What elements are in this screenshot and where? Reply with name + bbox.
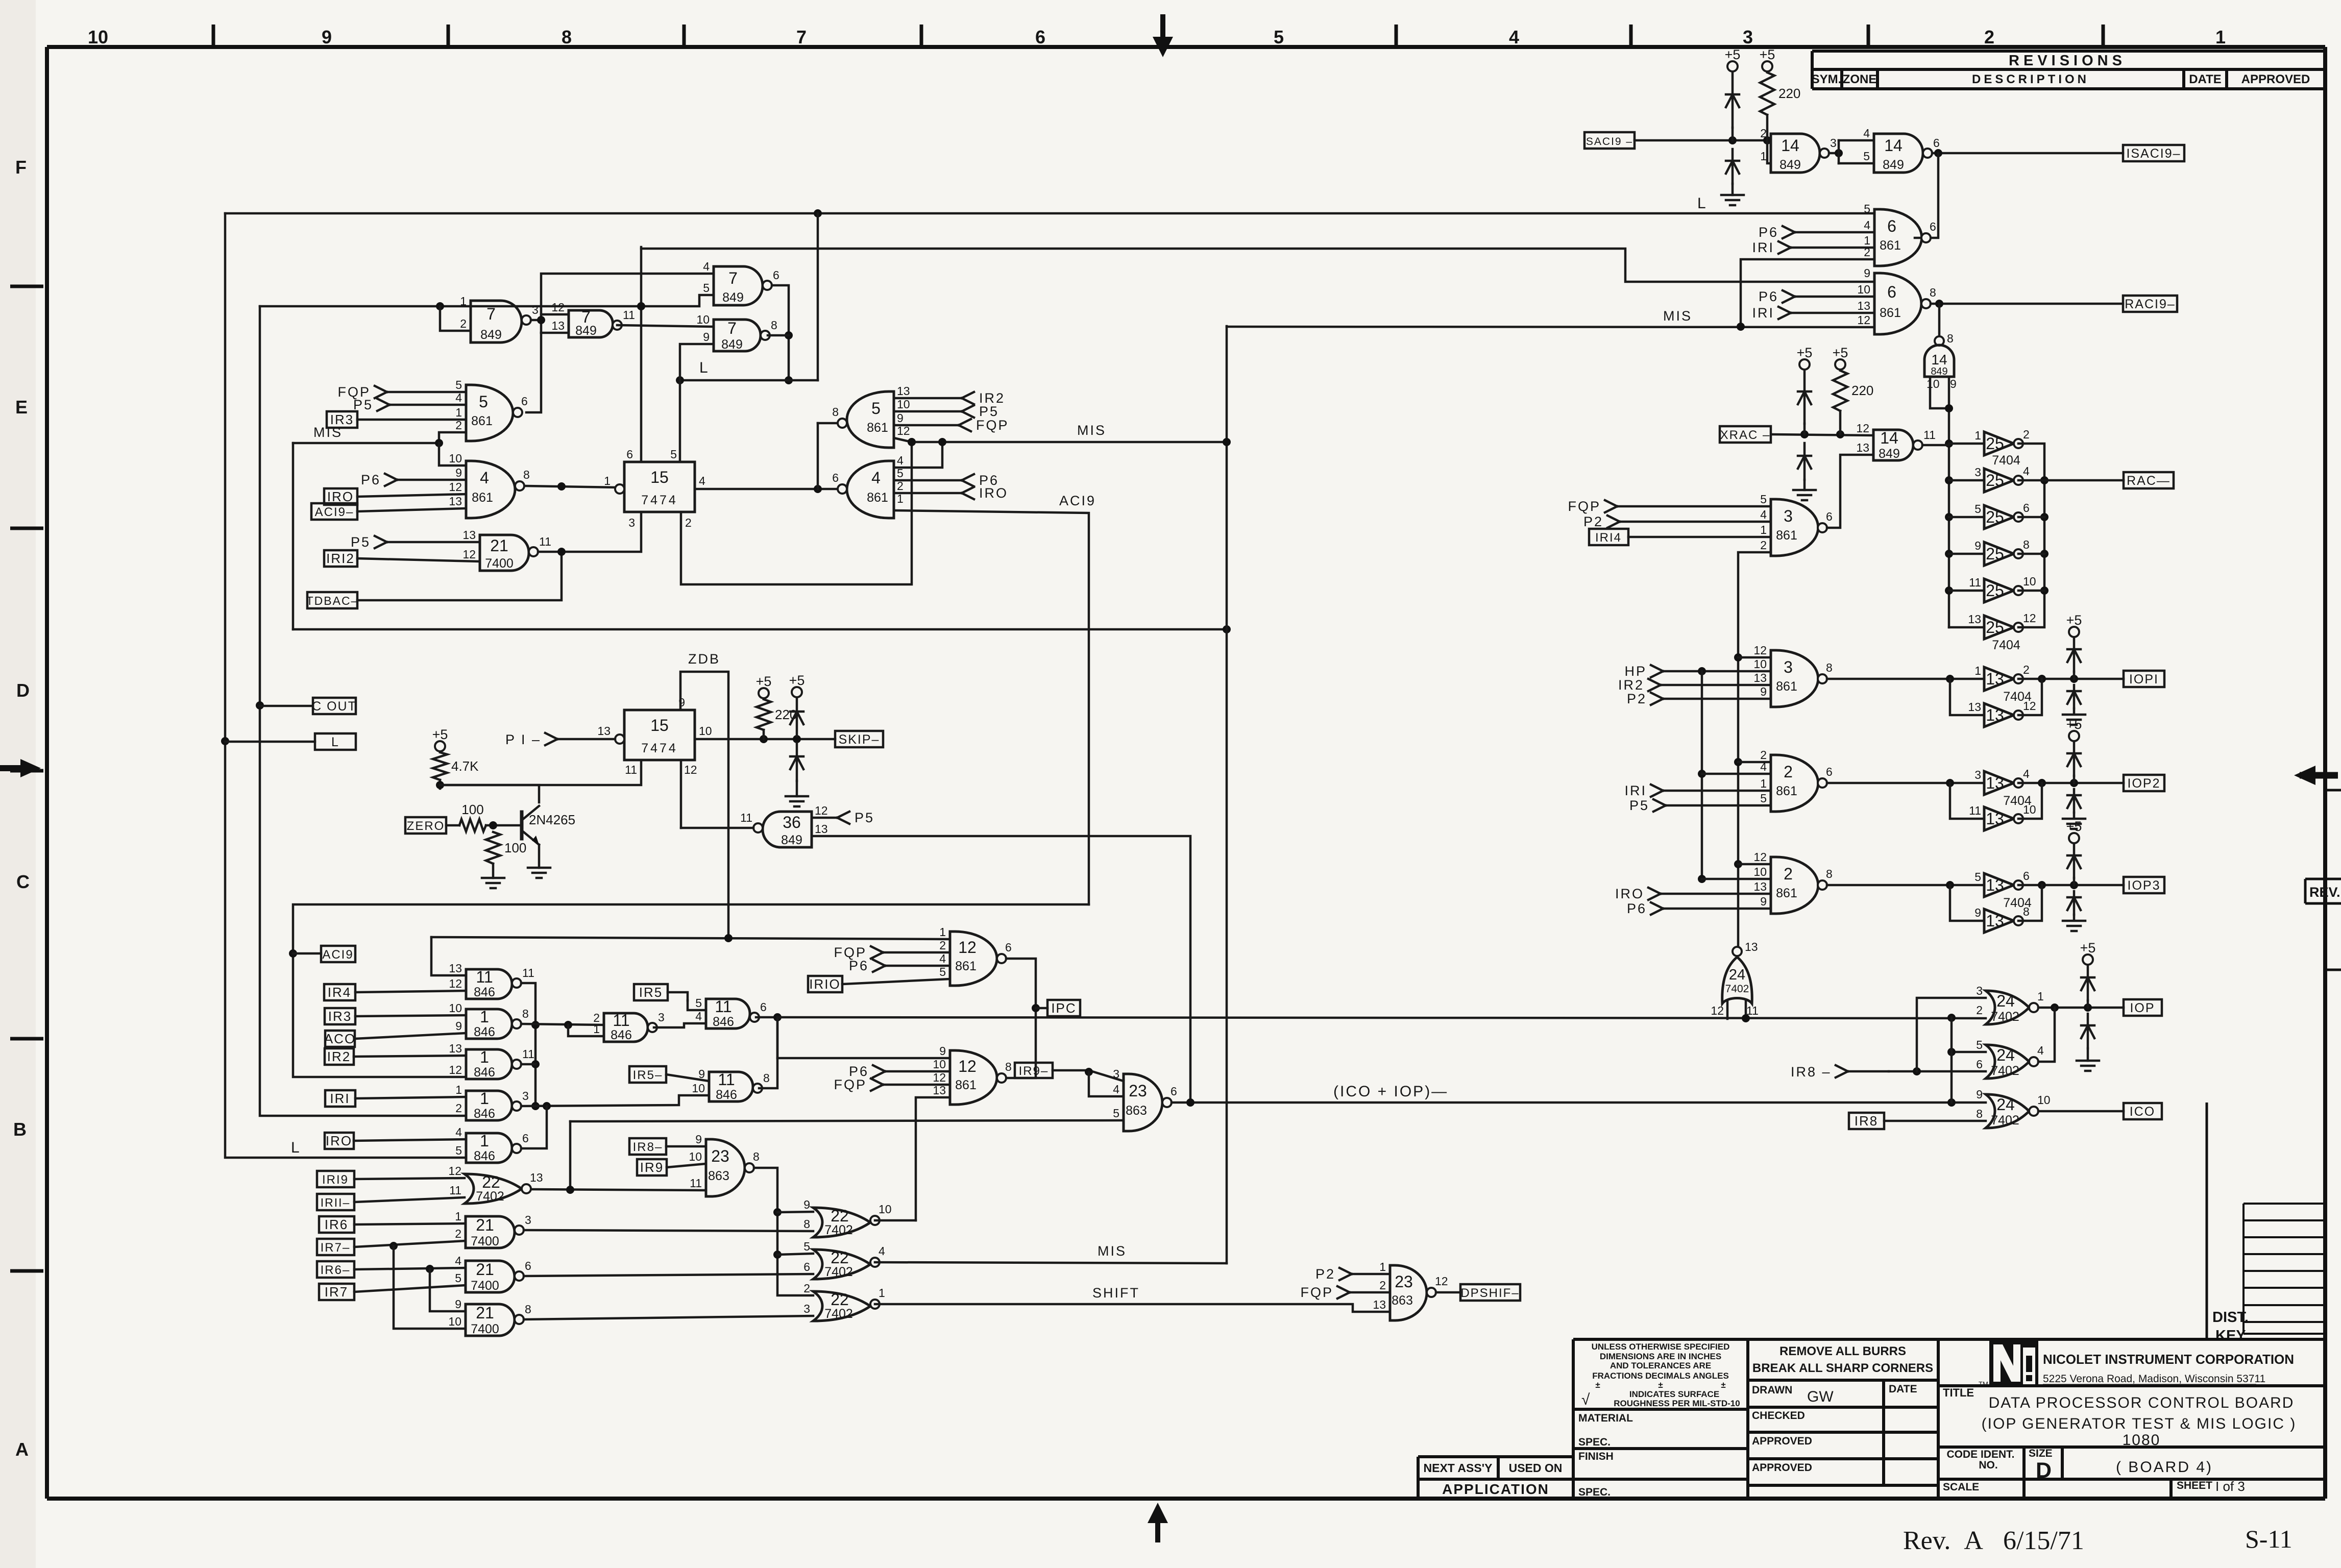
svg-text:846: 846 xyxy=(474,1065,495,1080)
bottom border xyxy=(47,1497,2325,1501)
svg-text:+5: +5 xyxy=(2066,612,2082,628)
wire IPC feed long east xyxy=(777,1017,1986,1018)
svg-text:IR7–: IR7– xyxy=(321,1241,351,1255)
wire left vertical rail x441 (L net) xyxy=(225,213,466,1158)
node IR3 box (lower) xyxy=(325,1008,355,1024)
inverter 13 (7404) pins 9->8 xyxy=(1974,905,2030,933)
svg-text:REMOVE ALL BURRS: REMOVE ALL BURRS xyxy=(1779,1344,1906,1358)
flip-flop 15 (7474) upper xyxy=(624,462,695,512)
svg-text:Rev. A 6/15/71: Rev. A 6/15/71 xyxy=(1903,1526,2084,1555)
svg-text:5: 5 xyxy=(455,1271,461,1285)
wire P1 to 7474b xyxy=(557,738,615,741)
node TDBAC- box xyxy=(306,592,359,608)
node DPSHIF- box xyxy=(1460,1284,1520,1301)
svg-text:1: 1 xyxy=(480,1008,489,1026)
wire 7474b pin12 down xyxy=(680,760,682,828)
svg-text:P5: P5 xyxy=(351,534,371,550)
wire saci9 pin1 loop xyxy=(1767,140,1771,163)
wire TDBAC- up to out8 net xyxy=(357,552,562,600)
wire P6 to 12b pin10 xyxy=(885,1070,950,1073)
wire P5 to 2a pin5 xyxy=(1666,804,1771,807)
svg-text:L: L xyxy=(1697,195,1708,212)
svg-text:IOP3: IOP3 xyxy=(2128,878,2161,893)
svg-text:8: 8 xyxy=(803,1217,810,1231)
svg-text:13: 13 xyxy=(1373,1298,1386,1311)
wire xrac 220 stub xyxy=(1839,411,1842,434)
svg-text:11: 11 xyxy=(539,535,551,548)
wire left vertical rail x509 xyxy=(260,306,466,1116)
svg-text:IR5–: IR5– xyxy=(633,1068,663,1082)
svg-text:861: 861 xyxy=(867,491,888,505)
svg-text:IRIO: IRIO xyxy=(809,976,840,992)
svg-text:+5: +5 xyxy=(789,673,805,688)
svg-text:√: √ xyxy=(1581,1391,1590,1408)
svg-text:7402: 7402 xyxy=(1725,983,1749,995)
svg-text:NICOLET INSTRUMENT CORPORATION: NICOLET INSTRUMENT CORPORATION xyxy=(2043,1352,2294,1367)
svg-text:12: 12 xyxy=(958,938,977,957)
svg-text:IR3: IR3 xyxy=(328,1009,352,1024)
wire IR3 to 1a xyxy=(355,1015,466,1016)
svg-text:10: 10 xyxy=(1857,283,1870,296)
inverter 25 (7404) pins 3->4 xyxy=(1974,464,2030,492)
svg-text:2: 2 xyxy=(2023,428,2030,441)
svg-text:6: 6 xyxy=(1170,1085,1177,1098)
svg-text:5: 5 xyxy=(695,996,702,1010)
wire 22b pin9 stub xyxy=(777,1212,813,1212)
wire IR9 to 23b pin10 xyxy=(667,1164,706,1167)
node ACI9- box xyxy=(311,503,357,520)
svg-text:13: 13 xyxy=(933,1084,946,1097)
svg-text:IR2: IR2 xyxy=(327,1049,351,1064)
svg-text:10: 10 xyxy=(2037,1093,2051,1107)
svg-text:REVISIONS: REVISIONS xyxy=(2009,53,2126,69)
wire iop3 clamp stub xyxy=(2073,878,2076,885)
and-gate 2 (861) pins 12,10,13,9 -> 8 xyxy=(1753,850,1832,914)
wire HP to 3b pin10 xyxy=(1663,670,1771,673)
svg-text:5: 5 xyxy=(479,393,488,411)
svg-text:APPLICATION: APPLICATION xyxy=(1442,1481,1549,1497)
svg-text:12: 12 xyxy=(1857,313,1870,327)
left border xyxy=(45,47,49,1499)
svg-text:12: 12 xyxy=(1753,644,1767,657)
junction 4.7K to pin11 wire xyxy=(436,781,444,789)
node P5 input (gate21a) xyxy=(351,534,387,550)
wire 3a out6 to 14d pin13 xyxy=(1827,455,1873,528)
wire 2a pin2 stub xyxy=(1738,761,1771,764)
svg-text:P6: P6 xyxy=(1759,289,1778,304)
node P6 input (6a) xyxy=(1759,225,1795,240)
bottom up-arrow marker xyxy=(1148,1503,1168,1542)
svg-text:IOP: IOP xyxy=(2130,1001,2155,1015)
node IR14 box xyxy=(1589,529,1628,545)
svg-text:6: 6 xyxy=(2023,869,2030,883)
svg-text:13: 13 xyxy=(815,822,828,836)
ground (iop2 clamp) xyxy=(2063,819,2085,829)
svg-text:UNLESS OTHERWISE SPECIFIED: UNLESS OTHERWISE SPECIFIED xyxy=(1592,1342,1730,1352)
wire ICO+IOP rail x3823 xyxy=(1950,1017,1953,1102)
wire 6a pin2 from MIS xyxy=(1741,259,1874,327)
svg-text:9: 9 xyxy=(698,1067,705,1081)
svg-text:6: 6 xyxy=(626,448,633,461)
node P6 input (12a) xyxy=(849,958,885,973)
wire IRO to gate4 xyxy=(357,494,466,497)
power +5 (xrac diode) xyxy=(1797,345,1813,370)
top down-arrow marker xyxy=(1153,14,1173,57)
wire 36 out11 to 7474b pin12 xyxy=(681,827,753,829)
svg-text:5: 5 xyxy=(1863,150,1870,163)
svg-text:6: 6 xyxy=(1826,765,1833,778)
top zone numbers xyxy=(88,27,2226,47)
svg-text:5: 5 xyxy=(455,378,462,391)
svg-text:NO.: NO. xyxy=(1979,1459,1997,1471)
wire 36 pin12 xyxy=(812,817,837,819)
svg-text:FQP: FQP xyxy=(834,1077,867,1092)
svg-text:13: 13 xyxy=(1986,912,2004,930)
svg-text:849: 849 xyxy=(781,833,802,847)
svg-text:25: 25 xyxy=(1986,545,2004,563)
wire 21a out to 7474 pin3 xyxy=(538,512,641,552)
wire iop1 clamp gnd stub xyxy=(2073,708,2076,713)
wire 13f out up xyxy=(2018,885,2042,921)
svg-text:2: 2 xyxy=(460,317,467,330)
svg-text:IR6–: IR6– xyxy=(321,1263,351,1277)
wire SHIFT east (22d out1) xyxy=(875,1304,1390,1312)
wire 6a out up to ISACI9 xyxy=(1915,153,1938,238)
svg-text:11: 11 xyxy=(522,966,534,979)
svg-text:P2: P2 xyxy=(1583,514,1603,529)
wire zdb rail to 12861 pin1 xyxy=(431,937,950,939)
svg-text:ZERO: ZERO xyxy=(407,819,445,833)
node IR7- box xyxy=(317,1239,354,1255)
wire emitter to ground xyxy=(538,845,541,868)
node ZERO box xyxy=(405,817,446,834)
svg-text:S-11: S-11 xyxy=(2245,1525,2293,1553)
wire 11c out6 east xyxy=(756,1016,777,1019)
wire IR8 arrow line xyxy=(1889,1070,1986,1073)
svg-text:863: 863 xyxy=(708,1169,729,1183)
svg-text:1: 1 xyxy=(2037,990,2044,1003)
svg-text:ACI9: ACI9 xyxy=(1059,493,1096,508)
svg-text:4: 4 xyxy=(1760,508,1767,521)
left edge pointer arrow xyxy=(0,759,41,777)
svg-text:100: 100 xyxy=(461,802,483,817)
svg-text:21: 21 xyxy=(476,1216,494,1234)
wire 7c out6 down xyxy=(772,285,789,380)
wire second bus (pin9 feed) xyxy=(641,249,1874,282)
svg-text:11: 11 xyxy=(740,811,752,824)
node P5 output arrow xyxy=(962,404,999,419)
wire 13f loop xyxy=(1950,885,1984,921)
svg-text:IR2: IR2 xyxy=(1618,677,1644,693)
wire 13b loop xyxy=(1950,679,1984,715)
svg-text:8: 8 xyxy=(753,1150,760,1163)
svg-text:L: L xyxy=(291,1139,301,1156)
wire IR2 to 3b pin13 xyxy=(1661,684,1771,687)
resistor 220 (skip) xyxy=(757,699,797,730)
svg-text:7: 7 xyxy=(486,305,496,323)
svg-text:9: 9 xyxy=(1976,1088,1983,1101)
svg-text:861: 861 xyxy=(867,421,888,435)
svg-text:13: 13 xyxy=(1986,670,2004,688)
svg-text:NEXT ASS'Y: NEXT ASS'Y xyxy=(1424,1461,1493,1475)
svg-text:IOP2: IOP2 xyxy=(2128,776,2161,791)
resistor 100 (pulldown) xyxy=(486,832,526,864)
left zone letters xyxy=(13,157,30,1460)
svg-text:13: 13 xyxy=(1986,706,2004,724)
ground (saci9 clamp) xyxy=(1721,195,1744,205)
svg-text:100: 100 xyxy=(504,840,526,855)
nor-gate 24 (7402) vertical pins 12,11 -> 13 xyxy=(1711,940,1758,1017)
nand-gate 1 (846) pins 13,12 -> 11 xyxy=(449,1042,534,1080)
wire MIS main vertical x2403 xyxy=(1226,326,1228,1263)
wire ZDB loop xyxy=(680,672,728,938)
svg-text:12: 12 xyxy=(958,1057,977,1075)
junction MIS bus / MIS vertical xyxy=(1223,625,1231,633)
node IRI input (6a) xyxy=(1752,240,1791,255)
wire 25 inverter input row 1 xyxy=(1949,443,1984,445)
node P2 input (3b) xyxy=(1627,691,1663,706)
svg-text:861: 861 xyxy=(1776,886,1797,900)
wire 2b out8 to inverters xyxy=(1827,884,1984,887)
svg-text:IRO: IRO xyxy=(327,489,354,504)
nor-gate 22 (7402) pins 12,11 -> 13 xyxy=(448,1164,543,1204)
svg-text:8: 8 xyxy=(771,318,777,332)
svg-text:8: 8 xyxy=(522,1007,529,1020)
svg-text:5: 5 xyxy=(1760,493,1767,506)
wire IR14 to 3a pin1 xyxy=(1628,536,1771,538)
wire 220 skip stub xyxy=(763,730,765,739)
wire ACI9- to gate4 xyxy=(357,508,466,511)
svg-text:XRAC –: XRAC – xyxy=(1720,428,1771,442)
svg-text:IRI: IRI xyxy=(1752,240,1774,255)
svg-text:TM: TM xyxy=(1979,1380,1988,1388)
svg-text:25: 25 xyxy=(1986,471,2004,489)
wire 13d loop xyxy=(1950,783,1984,819)
svg-text:25: 25 xyxy=(1986,581,2004,600)
svg-text:21: 21 xyxy=(490,536,508,555)
svg-text:1: 1 xyxy=(879,1286,885,1300)
top ruler ticks xyxy=(213,24,2103,47)
svg-text:12: 12 xyxy=(1753,850,1767,864)
wire FQP to 23c pin2 xyxy=(1350,1291,1390,1294)
svg-text:13: 13 xyxy=(462,528,476,542)
svg-text:13: 13 xyxy=(1968,612,1981,626)
diode clamp upper (iop1) xyxy=(2067,638,2081,672)
svg-text:3: 3 xyxy=(1784,658,1793,676)
svg-text:4: 4 xyxy=(1113,1083,1119,1096)
svg-text:12: 12 xyxy=(462,548,476,561)
svg-text:7402: 7402 xyxy=(476,1189,504,1204)
wire 14c pin10 loop xyxy=(1930,377,1949,408)
wire 4m pin4 up to MIS xyxy=(894,442,942,468)
wire 2b pin10 stub xyxy=(1702,878,1771,880)
svg-text:12: 12 xyxy=(449,480,462,494)
node IOP2 box xyxy=(2124,775,2164,791)
svg-text:2: 2 xyxy=(455,1101,462,1115)
wire gate4 out8 to 7474 pin1 xyxy=(526,486,618,487)
wire 13b out up xyxy=(2018,679,2042,715)
node IR5 box xyxy=(634,984,668,1000)
svg-text:TITLE: TITLE xyxy=(1943,1386,1974,1399)
svg-text:6: 6 xyxy=(522,1132,529,1145)
svg-text:GW: GW xyxy=(1807,1388,1834,1405)
wire out8 row east xyxy=(521,1024,604,1025)
wire IR7- branch to 21d pin10 xyxy=(394,1246,466,1329)
svg-text:IRO: IRO xyxy=(979,485,1008,501)
svg-text:12: 12 xyxy=(2023,699,2036,713)
svg-text:7402: 7402 xyxy=(1991,1113,2019,1128)
wire IR8- to 23b pin9 xyxy=(666,1145,706,1148)
svg-text:(IOP GENERATOR TEST & MIS L: (IOP GENERATOR TEST & MIS LOGIC ) xyxy=(1982,1415,2297,1432)
wire 22c pin5 stub xyxy=(777,1254,813,1255)
svg-text:IRI: IRI xyxy=(330,1091,350,1106)
svg-text:5: 5 xyxy=(703,281,710,295)
svg-text:13: 13 xyxy=(1986,810,2004,828)
wire IR8 box to 24d pin8 xyxy=(1884,1120,1986,1122)
node ISACI9- box xyxy=(2123,145,2184,161)
junction 11c/11d outputs xyxy=(773,1013,782,1021)
svg-text:4: 4 xyxy=(1760,760,1767,773)
wire L box to rail xyxy=(225,741,315,743)
wire 25 output row stub y1013 xyxy=(2018,516,2044,519)
wire P5 to 21a pin13 xyxy=(387,541,480,544)
nand-gate 7 (849) pins 12,13 -> 11 xyxy=(551,301,635,338)
svg-text:SPEC.: SPEC. xyxy=(1578,1486,1611,1498)
svg-text:3: 3 xyxy=(628,516,635,529)
svg-text:P6: P6 xyxy=(1759,225,1778,240)
node IRO box (lower) xyxy=(325,1133,354,1149)
svg-text:9: 9 xyxy=(455,1297,461,1311)
svg-text:1: 1 xyxy=(1760,777,1767,790)
svg-text:14: 14 xyxy=(1880,429,1898,447)
wire 25 inverter input row 11 xyxy=(1949,590,1984,592)
svg-text:5: 5 xyxy=(871,399,881,418)
wire iop2 clamp gnd stub xyxy=(2073,813,2076,817)
svg-text:10: 10 xyxy=(699,724,712,738)
svg-text:3: 3 xyxy=(803,1302,810,1315)
svg-text:1: 1 xyxy=(1379,1260,1386,1273)
svg-text:10: 10 xyxy=(2023,575,2036,588)
power +5 (xrac 220) xyxy=(1833,345,1848,370)
wire 7474b pin11 down west xyxy=(440,760,641,785)
svg-text:(ICO + IOP)—: (ICO + IOP)— xyxy=(1333,1083,1448,1100)
svg-text:P5: P5 xyxy=(855,810,874,825)
wire 11a pin13 up xyxy=(431,937,466,975)
svg-text:9: 9 xyxy=(1950,377,1957,390)
wire pulldown to ground xyxy=(492,864,495,878)
svg-text:D: D xyxy=(16,680,30,701)
wire 25 output row stub y1085 xyxy=(2018,553,2044,555)
svg-text:USED ON: USED ON xyxy=(1509,1461,1563,1475)
svg-text:IRI: IRI xyxy=(1624,783,1647,798)
svg-text:6: 6 xyxy=(1887,217,1896,235)
svg-text:5: 5 xyxy=(1976,1038,1983,1051)
nand-gate 7 (849) pins 1,2 -> 3 xyxy=(460,295,539,342)
node IRI9 box xyxy=(317,1171,354,1187)
nand-gate 11 (846) pins 13,12 -> 11 xyxy=(449,962,534,999)
svg-text:4: 4 xyxy=(897,454,904,467)
svg-text:IR8 –: IR8 – xyxy=(1791,1064,1832,1080)
nand-gate 7 (849) pins 10,9 -> 8 xyxy=(696,313,777,352)
wire ACI9 east rail xyxy=(894,510,1089,904)
node P6 output arrow xyxy=(962,473,999,488)
wire 25 inverter input row 9 xyxy=(1949,553,1984,555)
svg-text:1: 1 xyxy=(480,1089,489,1108)
svg-text:( BOARD 4): ( BOARD 4) xyxy=(2116,1459,2213,1476)
svg-text:IRO: IRO xyxy=(1615,886,1644,901)
svg-text:13: 13 xyxy=(449,1042,462,1055)
nor-gate 24 (7402) pins 5,6 -> 4 xyxy=(1976,1038,2044,1079)
svg-text:8: 8 xyxy=(763,1071,770,1085)
node FQP input (12b) xyxy=(834,1077,883,1092)
node P6 input (2b) xyxy=(1627,901,1663,916)
nand-gate 11 (846) pins 5,4 -> 6 xyxy=(695,996,767,1029)
svg-text:11: 11 xyxy=(623,308,635,322)
wire 24c out4 up xyxy=(2038,1008,2055,1062)
wire 11d out8 up xyxy=(759,1017,777,1088)
node RAC- box xyxy=(2124,472,2174,488)
wire RACI9 down to 14c xyxy=(1938,304,1941,336)
wire HP rail x3334 xyxy=(1701,671,1703,879)
svg-text:2: 2 xyxy=(455,1227,461,1240)
svg-text:10: 10 xyxy=(449,1001,462,1015)
nand-gate 1 (846) pins 1,2 -> 3 xyxy=(455,1083,529,1121)
wire 21d out8 to 22d pin3 xyxy=(524,1316,813,1319)
svg-text:FQP: FQP xyxy=(1568,499,1601,514)
wire IRI to 1c xyxy=(355,1097,466,1098)
wire MIS east (22c out4) xyxy=(875,1262,1227,1263)
svg-text:6: 6 xyxy=(1930,220,1936,233)
inverter 25 (7404) pins 13->12 xyxy=(1968,611,2036,639)
svg-text:846: 846 xyxy=(713,1015,734,1029)
right border xyxy=(2323,47,2327,1499)
wire 7474a pin5 riser xyxy=(679,380,681,462)
svg-text:23: 23 xyxy=(1395,1272,1413,1291)
node IRO output arrow xyxy=(962,485,1008,501)
diode clamp lower (iop3) xyxy=(2067,891,2081,915)
node IPC box xyxy=(1047,1000,1080,1016)
wire P2 to 3a pin4 xyxy=(1620,521,1771,523)
svg-text:849: 849 xyxy=(721,337,743,352)
svg-text:DPSHIF–: DPSHIF– xyxy=(1460,1286,1519,1300)
svg-text:13: 13 xyxy=(1745,940,1758,953)
svg-text:6: 6 xyxy=(1976,1058,1983,1071)
wire L line xyxy=(680,379,818,382)
right col rows xyxy=(1938,1384,2324,1387)
wire ACO to 1a xyxy=(355,1033,466,1039)
diode clamp lower (iop2) xyxy=(2067,789,2081,813)
nand-gate 21 (7400) pins 4,5 -> 6 xyxy=(455,1254,531,1293)
svg-text:4: 4 xyxy=(455,391,462,404)
svg-text:APPROVED: APPROVED xyxy=(1752,1435,1812,1447)
svg-text:849: 849 xyxy=(722,290,744,305)
svg-text:SPEC.: SPEC. xyxy=(1578,1436,1611,1448)
wire xrac diode gnd stub xyxy=(1803,480,1806,490)
svg-text:14: 14 xyxy=(1781,136,1799,155)
wire 12b pin13 feed xyxy=(916,1097,950,1220)
svg-text:2: 2 xyxy=(1760,538,1767,552)
svg-text:7402: 7402 xyxy=(1991,1064,2019,1078)
svg-text:6: 6 xyxy=(1826,510,1833,523)
svg-text:9: 9 xyxy=(455,1019,462,1033)
svg-text:4: 4 xyxy=(455,1125,462,1139)
wire 7a out3 east xyxy=(531,319,541,322)
nand-gate 1 (846) pins 10,9 -> 8 xyxy=(449,1001,528,1039)
power +5 (iop clamp) xyxy=(2080,940,2096,965)
junction 14a out xyxy=(1835,149,1843,157)
svg-text:1: 1 xyxy=(1974,664,1981,677)
nand-gate 14 (849) pins 4,5 -> 6 xyxy=(1863,127,1940,173)
